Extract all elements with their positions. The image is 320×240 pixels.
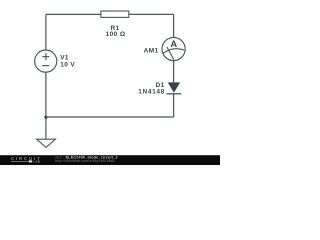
resistor R1 bbox=[101, 11, 129, 17]
wire top horizontal right of R1 bbox=[129, 13, 173, 15]
svg-text:AM1: AM1 bbox=[144, 47, 159, 54]
diode D1 bbox=[167, 82, 182, 93]
wire top horizontal left of R1 bbox=[46, 13, 101, 15]
svg-text:100 Ω: 100 Ω bbox=[106, 31, 126, 38]
wire D1 to bottom bbox=[173, 94, 175, 117]
footer bar bbox=[0, 155, 220, 165]
wire top-right vertical into AM1 bbox=[173, 14, 175, 37]
footer logo underline bbox=[11, 160, 28, 162]
voltage source V1 bbox=[35, 50, 57, 72]
svg-text:A: A bbox=[170, 39, 177, 49]
svg-text:10 V: 10 V bbox=[60, 61, 75, 68]
wire AM1 to D1 bbox=[173, 61, 175, 83]
wire top-left vertical bbox=[45, 14, 47, 50]
ammeter AM1 bbox=[162, 37, 185, 60]
footer logo mark bbox=[29, 160, 32, 162]
wire V1 bottom to ground bbox=[45, 72, 47, 139]
svg-text:LAB: LAB bbox=[33, 159, 40, 163]
wire bottom horizontal bbox=[46, 116, 174, 118]
svg-text:1N4148: 1N4148 bbox=[138, 89, 165, 96]
svg-text:http://circuitlab.com/c/49p7a9: http://circuitlab.com/c/49p7a97c8d2 bbox=[55, 159, 115, 163]
node junction dot bbox=[44, 116, 47, 119]
ground bbox=[37, 139, 56, 147]
